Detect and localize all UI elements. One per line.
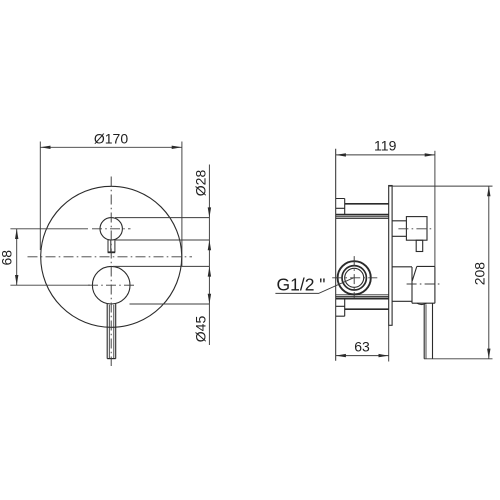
svg-text:Ø45: Ø45 (193, 316, 209, 343)
svg-text:63: 63 (354, 339, 370, 355)
svg-text:68: 68 (0, 250, 15, 266)
svg-text:G1/2 ": G1/2 " (277, 274, 326, 294)
svg-text:Ø170: Ø170 (94, 131, 128, 147)
svg-text:208: 208 (472, 262, 488, 286)
svg-text:Ø28: Ø28 (193, 170, 209, 197)
svg-text:119: 119 (374, 138, 397, 154)
